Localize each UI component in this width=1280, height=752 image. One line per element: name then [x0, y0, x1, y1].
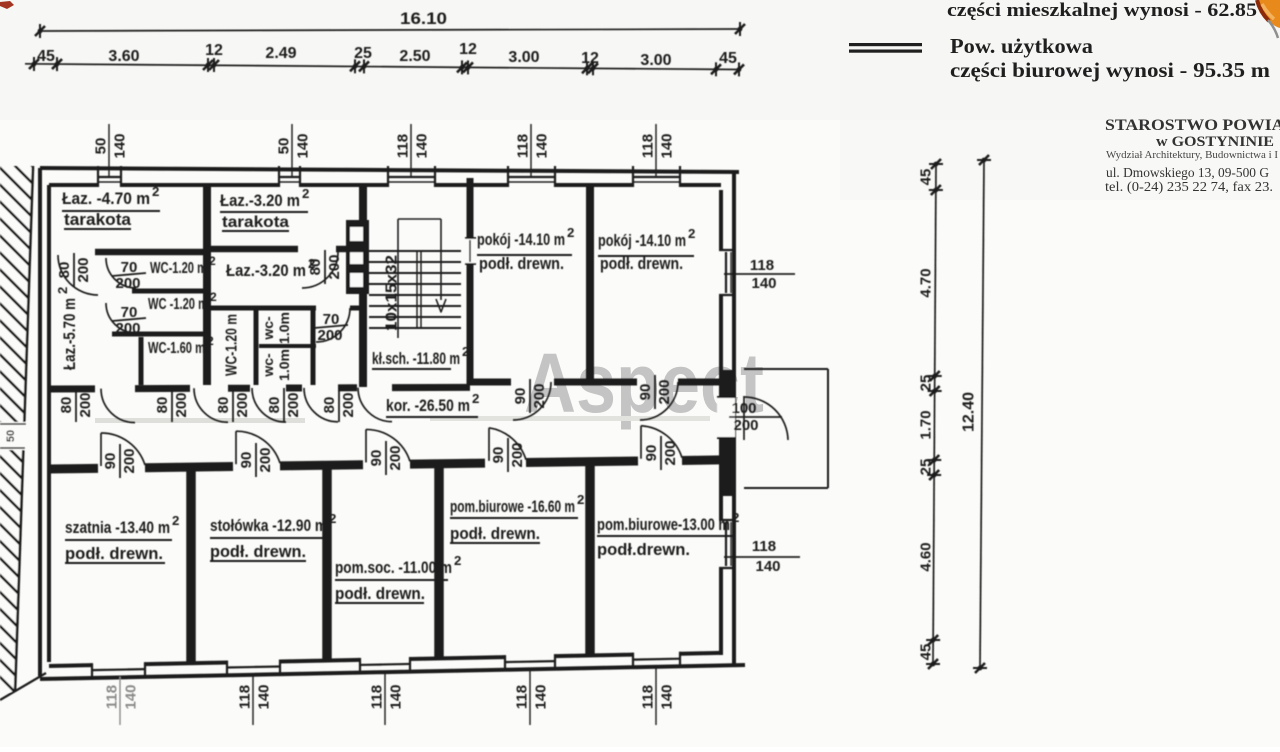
svg-text:80: 80 — [58, 397, 75, 414]
svg-text:12: 12 — [459, 41, 477, 58]
svg-text:118: 118 — [236, 685, 253, 709]
svg-text:2: 2 — [567, 225, 574, 240]
svg-text:wc-: wc- — [260, 353, 276, 378]
svg-text:2: 2 — [732, 510, 739, 525]
svg-text:szatnia -13.40 m: szatnia -13.40 m — [65, 518, 170, 537]
svg-text:kł.sch. -11.80 m: kł.sch. -11.80 m — [372, 349, 460, 368]
svg-text:45: 45 — [719, 50, 737, 67]
svg-text:200: 200 — [656, 379, 673, 404]
svg-text:140: 140 — [658, 684, 675, 709]
svg-text:2: 2 — [209, 254, 216, 268]
svg-text:3.00: 3.00 — [640, 52, 671, 69]
svg-text:w GOSTYNINIE: w GOSTYNINIE — [1156, 134, 1274, 150]
svg-text:140: 140 — [387, 684, 404, 709]
svg-text:tel. (0-24) 235 22 74, fax 23.: tel. (0-24) 235 22 74, fax 23. — [1105, 179, 1273, 194]
svg-text:118: 118 — [639, 685, 656, 709]
svg-text:200: 200 — [340, 392, 357, 417]
svg-text:podł. drewn.: podł. drewn. — [210, 542, 306, 561]
svg-text:Łaz.-5.70 m: Łaz.-5.70 m — [60, 298, 79, 370]
svg-text:Łaz.-3.20 m: Łaz.-3.20 m — [220, 191, 300, 210]
svg-text:2: 2 — [462, 344, 469, 359]
svg-text:STAROSTWO POWIAT: STAROSTWO POWIAT — [1105, 117, 1280, 134]
svg-text:16.10: 16.10 — [400, 9, 447, 28]
svg-text:WC-1.20 m: WC-1.20 m — [150, 260, 207, 277]
svg-text:stołówka -12.90 m: stołówka -12.90 m — [210, 516, 327, 535]
svg-text:200: 200 — [326, 254, 343, 279]
svg-text:pokój -14.10 m: pokój -14.10 m — [477, 230, 565, 249]
svg-text:podł.drewn.: podł.drewn. — [597, 540, 690, 559]
svg-text:118: 118 — [639, 134, 656, 158]
svg-text:200: 200 — [121, 448, 138, 473]
svg-text:12: 12 — [581, 50, 599, 67]
svg-text:WC -1.20 m: WC -1.20 m — [148, 296, 208, 313]
svg-text:200: 200 — [531, 383, 548, 408]
svg-text:118: 118 — [103, 685, 120, 709]
svg-text:podł. drewn.: podł. drewn. — [450, 524, 540, 543]
svg-text:200: 200 — [77, 392, 94, 417]
svg-text:1.70: 1.70 — [917, 410, 934, 439]
svg-text:200: 200 — [115, 275, 140, 292]
svg-text:200: 200 — [257, 447, 274, 472]
svg-text:100: 100 — [731, 400, 756, 417]
svg-text:80: 80 — [307, 259, 324, 276]
svg-text:pom.biurowe-13.00 m: pom.biurowe-13.00 m — [597, 515, 730, 534]
svg-text:2: 2 — [472, 391, 479, 406]
svg-text:118: 118 — [513, 685, 530, 709]
svg-text:4.60: 4.60 — [917, 542, 934, 571]
svg-text:podł. drewn.: podł. drewn. — [65, 544, 163, 563]
svg-text:pom.biurowe -16.60 m: pom.biurowe -16.60 m — [450, 497, 575, 516]
svg-text:140: 140 — [413, 133, 430, 158]
svg-text:Pow. użytkowa: Pow. użytkowa — [950, 34, 1094, 58]
svg-text:2: 2 — [329, 511, 336, 526]
svg-text:118: 118 — [368, 685, 385, 709]
svg-text:ul. Dmowskiego 13, 09-500 G: ul. Dmowskiego 13, 09-500 G — [1106, 165, 1269, 180]
svg-text:pom.soc. -11.00 m: pom.soc. -11.00 m — [335, 558, 452, 577]
svg-text:200: 200 — [75, 257, 92, 282]
svg-text:200: 200 — [173, 392, 190, 417]
svg-text:2.50: 2.50 — [399, 48, 430, 65]
svg-text:podł. drewn.: podł. drewn. — [479, 254, 564, 273]
svg-text:Łaz. -4.70 m: Łaz. -4.70 m — [62, 189, 150, 208]
svg-text:2: 2 — [172, 513, 179, 528]
svg-text:90: 90 — [490, 447, 507, 464]
svg-text:90: 90 — [512, 388, 529, 405]
svg-text:140: 140 — [755, 558, 780, 575]
svg-text:118: 118 — [752, 538, 776, 555]
svg-text:2: 2 — [688, 226, 695, 241]
svg-text:3.00: 3.00 — [508, 49, 539, 66]
svg-text:2: 2 — [152, 184, 159, 199]
svg-text:200: 200 — [509, 442, 526, 467]
svg-text:50: 50 — [92, 138, 109, 155]
svg-text:12: 12 — [205, 42, 223, 59]
svg-text:45: 45 — [917, 644, 934, 661]
svg-text:140: 140 — [658, 133, 675, 158]
svg-text:25: 25 — [354, 45, 372, 62]
svg-text:2: 2 — [454, 553, 461, 568]
svg-text:25: 25 — [917, 375, 934, 392]
svg-text:140: 140 — [111, 133, 128, 158]
svg-text:80: 80 — [215, 397, 232, 414]
svg-text:2.49: 2.49 — [265, 45, 296, 62]
svg-text:140: 140 — [751, 275, 776, 292]
svg-text:2: 2 — [207, 334, 214, 348]
svg-text:45: 45 — [37, 48, 55, 65]
svg-text:45: 45 — [917, 169, 934, 186]
svg-text:200: 200 — [387, 445, 404, 470]
svg-text:140: 140 — [255, 684, 272, 709]
svg-text:90: 90 — [238, 452, 255, 469]
svg-text:200: 200 — [733, 417, 758, 434]
svg-text:118: 118 — [514, 134, 531, 158]
svg-text:WC-1.60 m: WC-1.60 m — [148, 340, 205, 357]
svg-text:części mieszkalnej wynosi - 6: części mieszkalnej wynosi - 62.85 — [947, 0, 1257, 21]
svg-text:90: 90 — [368, 450, 385, 467]
svg-text:90: 90 — [637, 384, 654, 401]
svg-text:140: 140 — [294, 133, 311, 158]
svg-text:200: 200 — [115, 320, 140, 337]
svg-text:118: 118 — [750, 257, 774, 274]
svg-text:podł. drewn.: podł. drewn. — [600, 254, 683, 273]
svg-text:podł. drewn.: podł. drewn. — [335, 584, 425, 603]
svg-text:25: 25 — [917, 459, 934, 476]
svg-text:1.0m: 1.0m — [276, 312, 292, 344]
svg-text:2: 2 — [577, 492, 584, 507]
svg-text:90: 90 — [102, 453, 119, 470]
svg-text:3.60: 3.60 — [108, 48, 139, 65]
svg-text:2: 2 — [302, 186, 309, 201]
svg-text:50: 50 — [5, 430, 17, 442]
svg-text:200: 200 — [285, 392, 302, 417]
svg-text:140: 140 — [532, 684, 549, 709]
svg-text:10x15x32: 10x15x32 — [384, 255, 401, 331]
svg-text:części biurowej wynosi - 95.: części biurowej wynosi - 95.35 m — [950, 58, 1271, 82]
svg-text:200: 200 — [317, 327, 342, 344]
svg-text:WC-1.20 m: WC-1.20 m — [224, 314, 241, 376]
svg-text:80: 80 — [56, 262, 73, 279]
svg-text:Łaz.-3.20 m: Łaz.-3.20 m — [226, 261, 306, 280]
svg-text:80: 80 — [321, 397, 338, 414]
svg-text:2: 2 — [55, 287, 70, 294]
svg-text:wc-: wc- — [260, 316, 276, 341]
svg-text:2: 2 — [210, 290, 217, 304]
svg-text:1.0m: 1.0m — [276, 349, 292, 381]
svg-text:12.40: 12.40 — [961, 392, 978, 432]
svg-text:90: 90 — [643, 445, 660, 462]
svg-text:80: 80 — [154, 397, 171, 414]
svg-text:50: 50 — [275, 138, 292, 155]
svg-text:Wydział Architektury, Budownic: Wydział Architektury, Budownictwa i I — [1106, 150, 1279, 161]
svg-text:80: 80 — [266, 397, 283, 414]
svg-text:4.70: 4.70 — [917, 268, 934, 297]
svg-text:200: 200 — [234, 392, 251, 417]
svg-text:200: 200 — [662, 440, 679, 465]
svg-text:140: 140 — [122, 684, 139, 709]
svg-text:pokój -14.10 m: pokój -14.10 m — [598, 231, 686, 250]
svg-text:118: 118 — [394, 134, 411, 158]
svg-text:tarakota: tarakota — [64, 210, 132, 229]
svg-text:kor. -26.50 m: kor. -26.50 m — [386, 396, 470, 415]
svg-text:tarakota: tarakota — [222, 214, 289, 231]
svg-text:140: 140 — [533, 133, 550, 158]
